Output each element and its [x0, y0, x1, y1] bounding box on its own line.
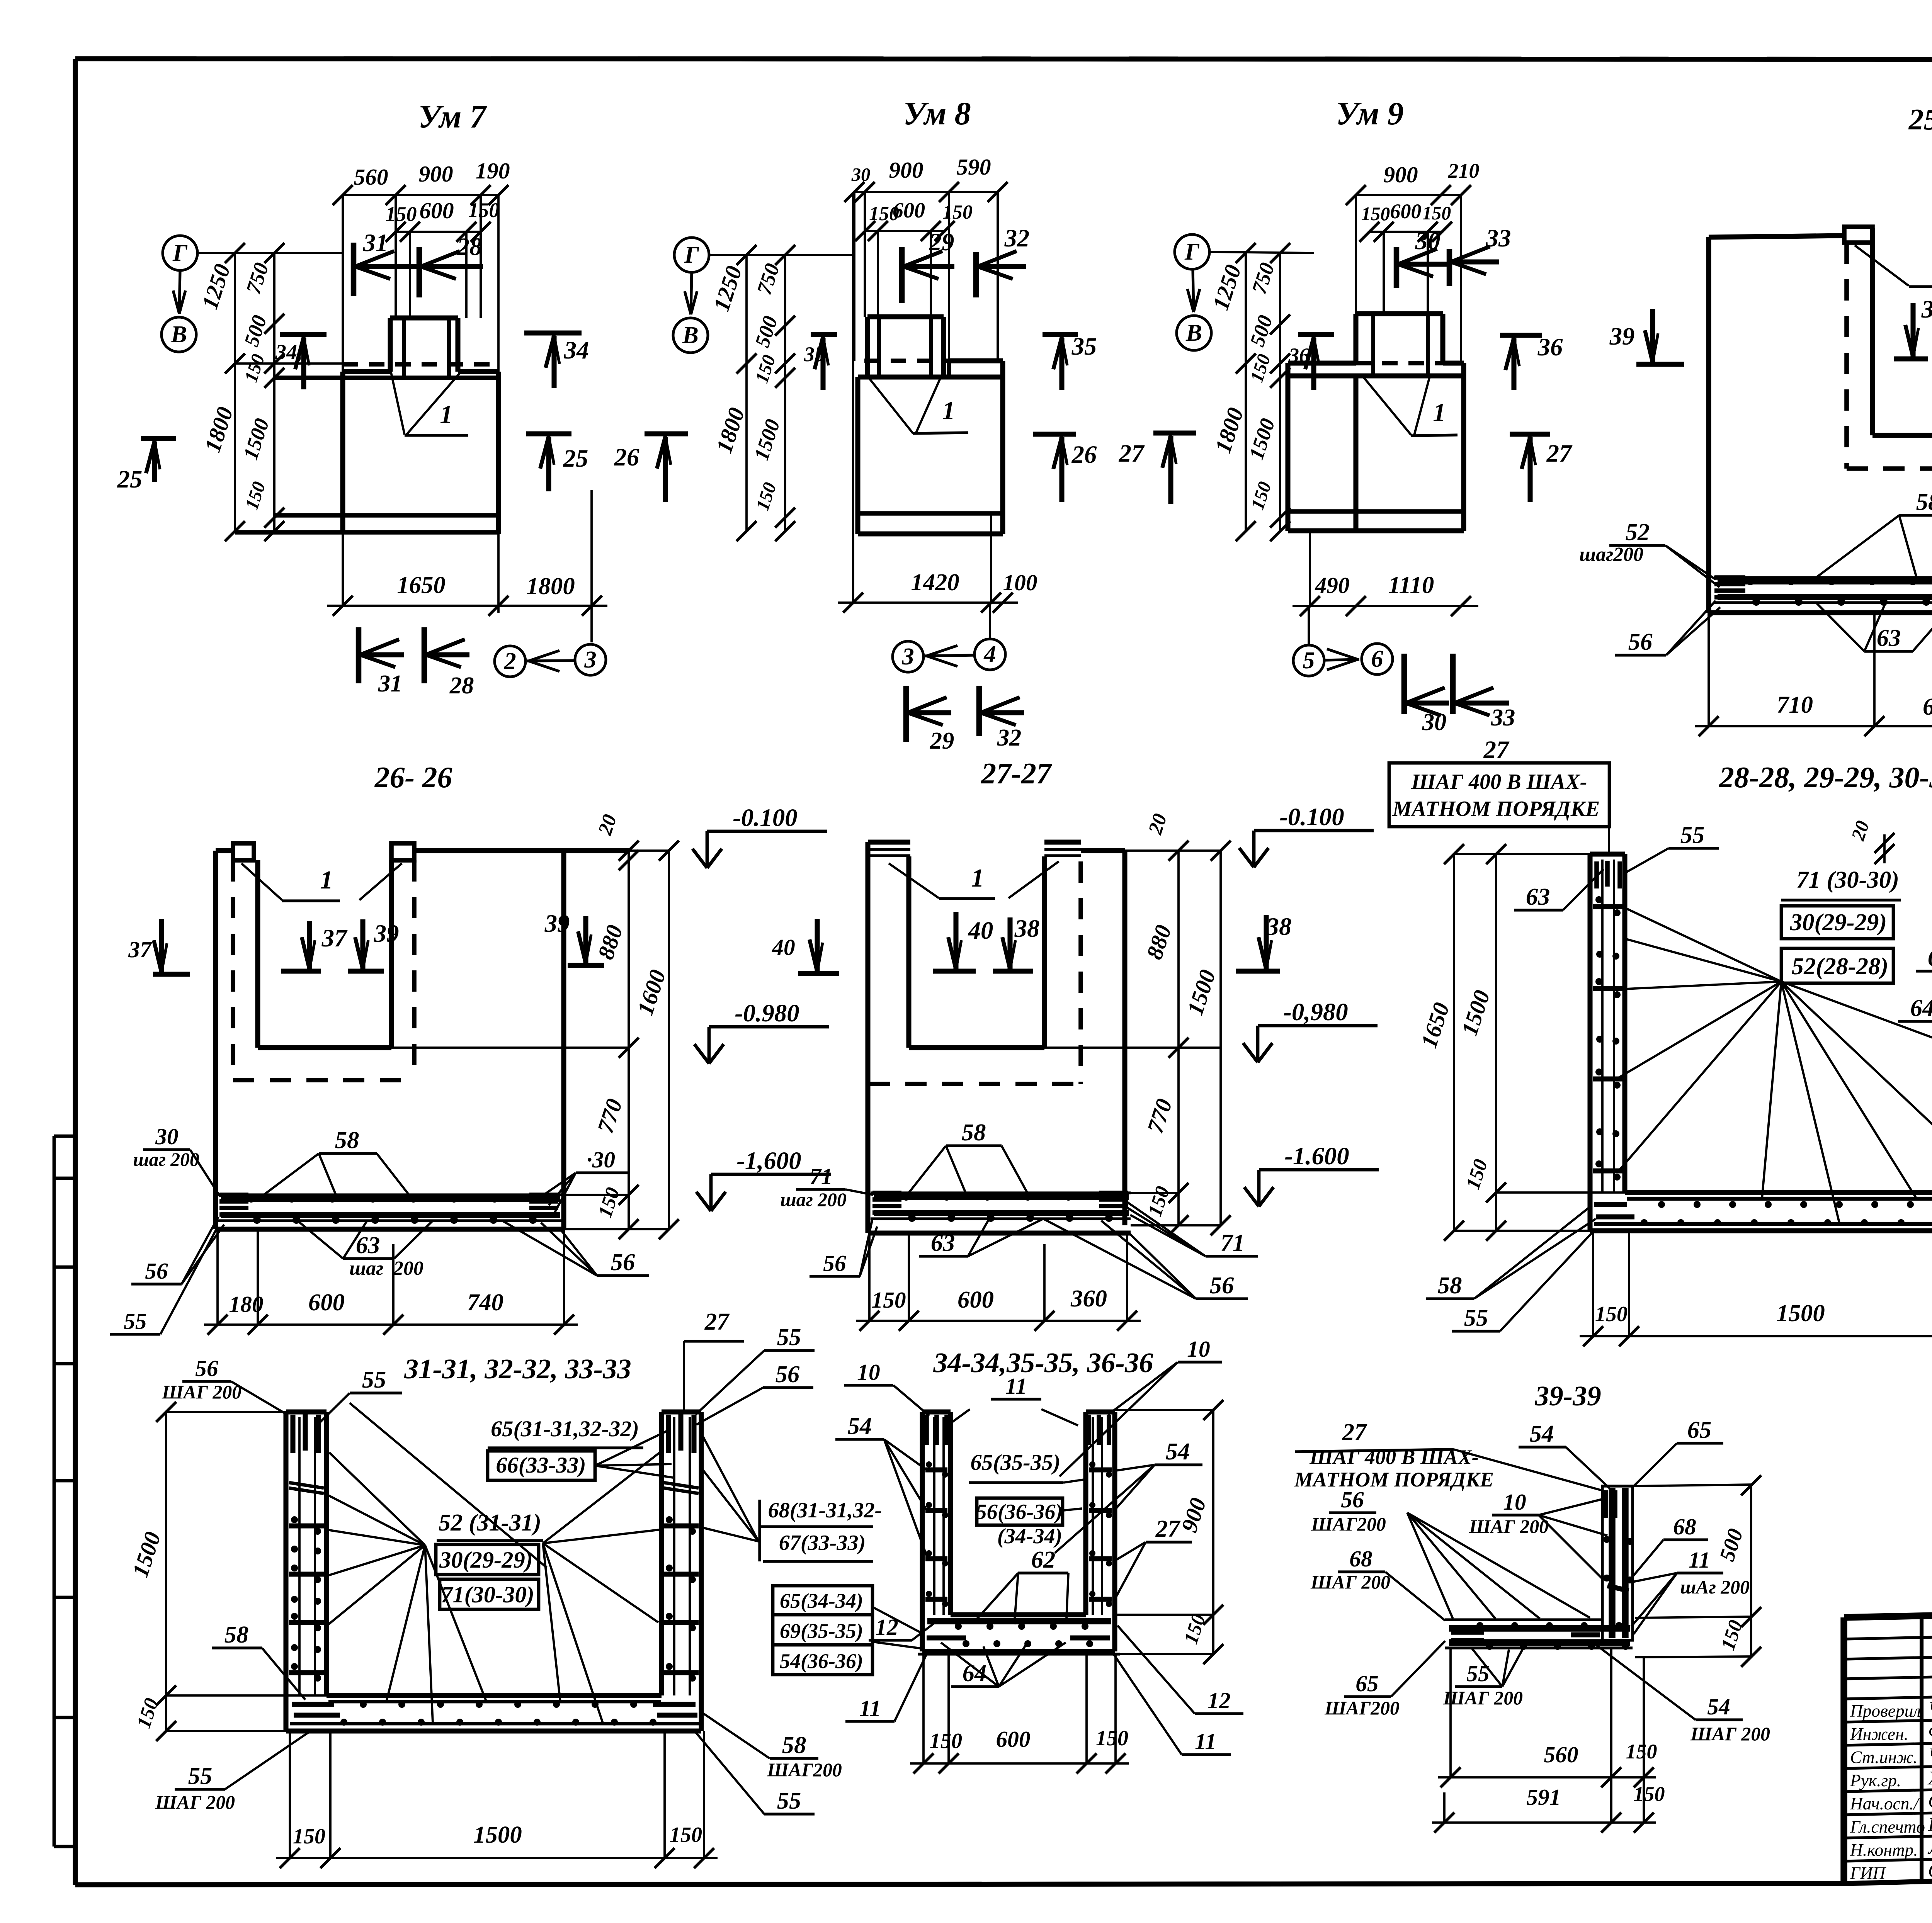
- svg-text:В: В: [682, 321, 699, 348]
- svg-text:28-28, 29-29, 30-30: 28-28, 29-29, 30-30: [1719, 761, 1932, 794]
- svg-text:150: 150: [930, 1729, 962, 1753]
- svg-text:шаг200: шаг200: [1579, 544, 1643, 566]
- svg-text:600: 600: [893, 199, 925, 223]
- svg-text:64: 64: [963, 1660, 987, 1687]
- svg-text:2: 2: [503, 647, 516, 674]
- svg-text:56: 56: [611, 1249, 635, 1276]
- svg-text:58: 58: [224, 1621, 249, 1648]
- svg-text:150: 150: [670, 1823, 702, 1847]
- svg-text:шАг 200: шАг 200: [1680, 1576, 1750, 1598]
- svg-text:4: 4: [983, 640, 996, 668]
- svg-text:36: 36: [1288, 344, 1310, 367]
- svg-text:54: 54: [1530, 1420, 1554, 1447]
- svg-text:ШАГ 400 В ШАХ-: ШАГ 400 В ШАХ-: [1309, 1446, 1479, 1469]
- svg-text:58: 58: [1916, 488, 1932, 515]
- svg-text:39-39: 39-39: [1534, 1380, 1601, 1412]
- svg-text:11: 11: [1689, 1547, 1710, 1573]
- svg-text:Гл.спечто: Гл.спечто: [1850, 1817, 1925, 1836]
- svg-text:710: 710: [1777, 691, 1813, 718]
- svg-text:10: 10: [857, 1359, 880, 1385]
- svg-text:ШАГ 200: ШАГ 200: [162, 1381, 241, 1403]
- svg-text:32: 32: [997, 724, 1022, 751]
- svg-text:ШАГ200: ШАГ200: [767, 1759, 842, 1780]
- svg-text:Г: Г: [1184, 238, 1200, 265]
- svg-text:35: 35: [804, 343, 825, 366]
- svg-text:39: 39: [1609, 323, 1635, 350]
- svg-text:шаг 200: шаг 200: [133, 1149, 199, 1170]
- svg-text:58: 58: [782, 1731, 806, 1758]
- svg-text:54: 54: [848, 1412, 872, 1439]
- svg-text:27: 27: [1342, 1418, 1367, 1446]
- svg-text:34,: 34,: [275, 340, 303, 364]
- svg-text:Осташевский: Осташевский: [1928, 1860, 1932, 1881]
- svg-text:54: 54: [1166, 1438, 1190, 1465]
- svg-text:-0.100: -0.100: [1279, 803, 1344, 831]
- svg-text:55: 55: [1464, 1304, 1488, 1331]
- svg-text:27-27: 27-27: [981, 757, 1053, 790]
- svg-text:29: 29: [929, 228, 954, 256]
- svg-text:ШАГ 200: ШАГ 200: [155, 1792, 235, 1813]
- svg-text:-1,600: -1,600: [736, 1147, 801, 1175]
- svg-text:150: 150: [1361, 203, 1390, 224]
- svg-text:55: 55: [777, 1787, 801, 1814]
- svg-text:600: 600: [308, 1289, 345, 1316]
- svg-text:27: 27: [1119, 440, 1145, 467]
- svg-text:68: 68: [1673, 1514, 1696, 1539]
- svg-text:Инжен.: Инжен.: [1850, 1724, 1908, 1744]
- svg-text:29: 29: [930, 727, 954, 754]
- svg-text:шаг 200: шаг 200: [780, 1189, 846, 1210]
- svg-text:26: 26: [614, 443, 639, 471]
- svg-text:1: 1: [942, 396, 955, 425]
- svg-text:1: 1: [440, 400, 452, 429]
- svg-text:190: 190: [475, 158, 510, 183]
- svg-text:ШАГ 200: ШАГ 200: [1690, 1723, 1770, 1745]
- svg-text:63: 63: [1877, 624, 1901, 651]
- svg-text:560: 560: [354, 164, 388, 190]
- svg-text:150: 150: [1626, 1740, 1657, 1763]
- svg-text:52: 52: [1626, 518, 1650, 545]
- svg-text:68(31-31,32-: 68(31-31,32-: [768, 1498, 882, 1522]
- svg-text:39: 39: [374, 920, 399, 948]
- svg-text:11: 11: [1005, 1373, 1027, 1399]
- svg-text:36: 36: [1537, 333, 1563, 361]
- svg-text:Ханин: Ханин: [1927, 1767, 1932, 1789]
- svg-text:1: 1: [971, 864, 984, 892]
- svg-text:Саакьянц: Саакьянц: [1928, 1790, 1932, 1812]
- svg-text:39: 39: [1921, 296, 1932, 323]
- svg-text:55: 55: [188, 1762, 213, 1789]
- svg-text:Г: Г: [684, 241, 699, 268]
- svg-text:55: 55: [1680, 821, 1705, 848]
- svg-text:1500: 1500: [473, 1821, 522, 1848]
- svg-text:Чернявская: Чернявская: [1928, 1698, 1932, 1719]
- svg-text:30(29-29): 30(29-29): [439, 1547, 533, 1573]
- svg-text:56: 56: [1210, 1272, 1234, 1299]
- svg-text:Чернявская: Чернявская: [1928, 1744, 1932, 1765]
- svg-text:63: 63: [931, 1229, 955, 1256]
- svg-text:150: 150: [468, 199, 500, 222]
- svg-text:28: 28: [449, 672, 474, 699]
- svg-text:900: 900: [1383, 162, 1418, 187]
- svg-text:62: 62: [1031, 1546, 1056, 1573]
- svg-text:40: 40: [968, 917, 993, 945]
- svg-text:180: 180: [229, 1291, 263, 1317]
- svg-text:В: В: [170, 321, 187, 348]
- svg-text:63: 63: [356, 1232, 380, 1259]
- svg-text:52(28-28): 52(28-28): [1792, 953, 1888, 980]
- svg-text:25- 25: 25- 25: [1908, 103, 1932, 136]
- svg-text:67(33-33): 67(33-33): [779, 1531, 866, 1555]
- svg-text:150: 150: [1096, 1726, 1128, 1750]
- svg-text:27: 27: [1483, 736, 1510, 764]
- svg-text:54: 54: [1707, 1694, 1730, 1719]
- svg-text:10: 10: [1187, 1336, 1210, 1362]
- svg-text:ШАГ 200: ШАГ 200: [1310, 1571, 1390, 1593]
- svg-text:600: 600: [996, 1726, 1030, 1752]
- svg-text:69(35-35): 69(35-35): [780, 1619, 863, 1643]
- svg-text:65(35-35): 65(35-35): [970, 1450, 1060, 1475]
- svg-text:30: 30: [155, 1124, 178, 1149]
- svg-text:В: В: [1185, 319, 1202, 346]
- svg-text:900: 900: [418, 161, 453, 187]
- svg-text:31: 31: [363, 229, 388, 257]
- svg-text:ШАГ 400 В ШАХ-: ШАГ 400 В ШАХ-: [1411, 770, 1587, 794]
- svg-text:3: 3: [901, 643, 914, 670]
- svg-text:1: 1: [1433, 398, 1446, 427]
- svg-text:27: 27: [1155, 1515, 1181, 1542]
- svg-text:31-31, 32-32, 33-33: 31-31, 32-32, 33-33: [404, 1353, 631, 1384]
- svg-text:65(34-34): 65(34-34): [780, 1589, 863, 1612]
- svg-text:56: 56: [776, 1361, 800, 1388]
- svg-text:37: 37: [128, 937, 152, 962]
- svg-text:150: 150: [1634, 1782, 1665, 1806]
- svg-text:37: 37: [321, 924, 348, 952]
- svg-text:590: 590: [956, 154, 991, 180]
- svg-text:ШАГ200: ШАГ200: [1311, 1514, 1386, 1535]
- svg-text:(34-34): (34-34): [997, 1524, 1062, 1548]
- svg-text:600: 600: [957, 1286, 994, 1313]
- svg-text:30: 30: [1422, 708, 1447, 736]
- svg-text:Н.контр.: Н.контр.: [1850, 1840, 1918, 1860]
- svg-text:ШАГ 200: ШАГ 200: [1443, 1687, 1523, 1709]
- svg-text:55: 55: [124, 1308, 146, 1334]
- svg-text:58: 58: [1438, 1272, 1462, 1299]
- svg-text:71: 71: [810, 1164, 832, 1189]
- svg-text:63: 63: [1928, 944, 1932, 971]
- svg-text:56: 56: [145, 1258, 168, 1284]
- svg-text:39: 39: [544, 910, 570, 938]
- svg-text:150: 150: [1595, 1302, 1628, 1326]
- svg-text:-0.980: -0.980: [735, 999, 799, 1027]
- svg-text:30: 30: [851, 164, 871, 185]
- svg-text:26: 26: [1071, 441, 1097, 469]
- svg-text:3: 3: [584, 646, 596, 673]
- svg-text:600: 600: [419, 198, 454, 223]
- svg-text:Федотова: Федотова: [1928, 1721, 1932, 1742]
- svg-text:-1.600: -1.600: [1284, 1142, 1349, 1170]
- svg-text:31: 31: [378, 670, 403, 697]
- svg-text:150: 150: [871, 1287, 906, 1313]
- svg-text:1: 1: [320, 866, 333, 894]
- svg-text:·30: ·30: [587, 1147, 615, 1172]
- svg-text:56(36-36): 56(36-36): [976, 1500, 1063, 1524]
- svg-text:27: 27: [1546, 440, 1573, 467]
- svg-text:Ум 8: Ум 8: [903, 96, 971, 132]
- svg-text:Луценко: Луценко: [1927, 1837, 1932, 1858]
- svg-text:64: 64: [1910, 994, 1932, 1021]
- svg-text:71: 71: [1221, 1229, 1245, 1256]
- svg-text:560: 560: [1544, 1742, 1578, 1767]
- svg-text:5: 5: [1303, 647, 1315, 674]
- svg-text:11: 11: [859, 1695, 881, 1721]
- svg-text:ГИП: ГИП: [1850, 1864, 1886, 1883]
- svg-text:Г: Г: [172, 239, 188, 266]
- svg-text:65: 65: [1355, 1671, 1378, 1696]
- svg-text:56: 56: [195, 1356, 218, 1381]
- svg-text:591: 591: [1526, 1784, 1561, 1810]
- svg-text:32: 32: [1004, 224, 1030, 252]
- svg-text:МАТНОМ ПОРЯДКЕ: МАТНОМ ПОРЯДКЕ: [1294, 1468, 1494, 1491]
- svg-text:740: 740: [467, 1289, 503, 1316]
- svg-text:27: 27: [704, 1308, 730, 1335]
- svg-text:-0,980: -0,980: [1283, 998, 1348, 1026]
- svg-text:34-34,35-35, 36-36: 34-34,35-35, 36-36: [933, 1347, 1153, 1378]
- svg-text:34: 34: [564, 336, 589, 364]
- svg-text:26- 26: 26- 26: [374, 761, 452, 794]
- svg-text:63: 63: [1526, 883, 1550, 910]
- svg-text:33: 33: [1491, 704, 1515, 731]
- svg-text:40: 40: [772, 934, 795, 960]
- svg-text:65(31-31,32-32): 65(31-31,32-32): [491, 1416, 639, 1441]
- svg-text:ШАГ200: ШАГ200: [1324, 1697, 1400, 1719]
- svg-text:150: 150: [386, 202, 417, 226]
- svg-text:12: 12: [1207, 1688, 1230, 1713]
- svg-text:35: 35: [1071, 333, 1097, 360]
- svg-text:1110: 1110: [1388, 571, 1434, 598]
- svg-text:30: 30: [1415, 227, 1440, 255]
- svg-text:-0.100: -0.100: [733, 804, 797, 832]
- svg-text:28: 28: [457, 233, 482, 261]
- svg-text:1800: 1800: [526, 572, 575, 600]
- svg-text:1420: 1420: [911, 569, 959, 596]
- svg-text:600: 600: [1923, 693, 1932, 720]
- svg-text:33: 33: [1486, 224, 1511, 252]
- svg-text:490: 490: [1315, 572, 1349, 598]
- svg-text:10: 10: [1503, 1489, 1526, 1515]
- svg-text:210: 210: [1448, 159, 1480, 182]
- svg-text:900: 900: [889, 157, 923, 183]
- svg-text:56: 56: [1341, 1487, 1364, 1512]
- svg-text:Боярченко: Боярченко: [1928, 1814, 1932, 1835]
- svg-text:Нач.осп./: Нач.осп./: [1850, 1794, 1920, 1813]
- svg-text:МАТНОМ ПОРЯДКЕ: МАТНОМ ПОРЯДКЕ: [1392, 797, 1600, 821]
- svg-text:65: 65: [1687, 1416, 1712, 1443]
- svg-text:Ум 7: Ум 7: [418, 99, 487, 135]
- svg-text:Ст.инж.: Ст.инж.: [1850, 1748, 1917, 1767]
- svg-text:71(30-30): 71(30-30): [441, 1582, 534, 1608]
- svg-text:55: 55: [362, 1366, 386, 1393]
- svg-text:150: 150: [1422, 202, 1451, 224]
- svg-text:25: 25: [117, 465, 143, 493]
- svg-text:68: 68: [1349, 1546, 1372, 1571]
- svg-text:150: 150: [942, 201, 973, 223]
- svg-text:1650: 1650: [397, 571, 445, 598]
- svg-text:56: 56: [1628, 628, 1653, 655]
- svg-text:100: 100: [1003, 570, 1037, 595]
- svg-text:30(29-29): 30(29-29): [1790, 909, 1887, 936]
- svg-text:58: 58: [335, 1126, 359, 1153]
- svg-text:ШАГ 200: ШАГ 200: [1469, 1516, 1549, 1537]
- svg-text:360: 360: [1070, 1285, 1107, 1312]
- svg-text:11: 11: [1195, 1729, 1216, 1754]
- svg-text:52 (31-31): 52 (31-31): [439, 1509, 541, 1536]
- svg-text:25: 25: [563, 445, 588, 472]
- svg-text:55: 55: [777, 1323, 801, 1351]
- svg-text:58: 58: [962, 1119, 986, 1146]
- svg-text:150: 150: [293, 1824, 325, 1848]
- svg-text:71 (30-30): 71 (30-30): [1796, 866, 1899, 893]
- svg-text:Проверил: Проверил: [1850, 1701, 1921, 1721]
- svg-text:Рук.гр.: Рук.гр.: [1850, 1771, 1901, 1790]
- svg-text:66(33-33): 66(33-33): [496, 1452, 586, 1478]
- svg-text:Ум 9: Ум 9: [1336, 96, 1403, 132]
- svg-text:38: 38: [1014, 915, 1040, 943]
- svg-text:1500: 1500: [1776, 1300, 1825, 1327]
- svg-text:38: 38: [1266, 913, 1292, 941]
- svg-text:56: 56: [823, 1250, 846, 1276]
- svg-text:6: 6: [1371, 645, 1383, 672]
- svg-text:54(36-36): 54(36-36): [780, 1649, 863, 1673]
- svg-text:шаг 200: шаг 200: [349, 1257, 423, 1279]
- svg-text:600: 600: [1390, 200, 1422, 223]
